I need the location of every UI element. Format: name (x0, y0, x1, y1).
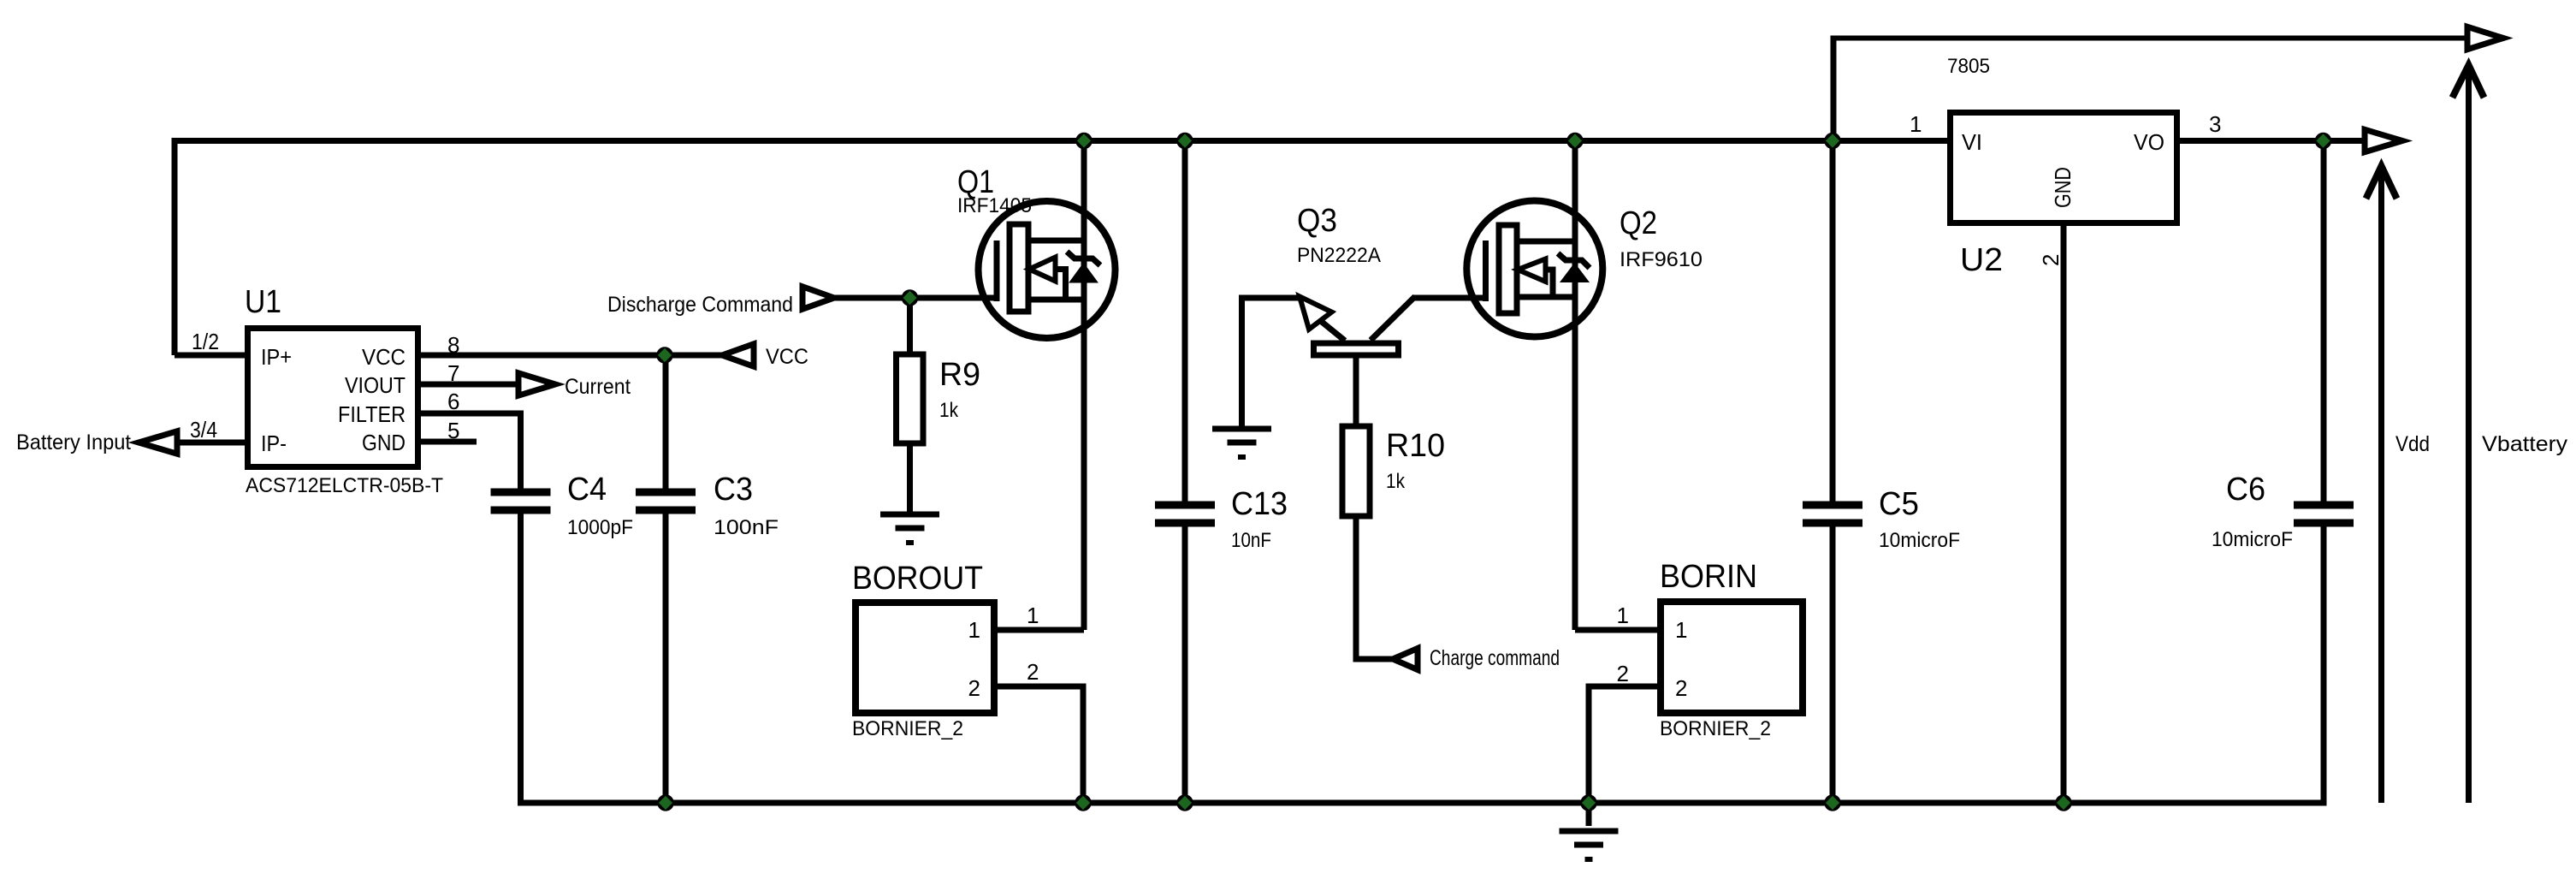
wire R9 top lead (907, 298, 913, 354)
pin label GND rotated (2050, 167, 2076, 208)
wire bottom ground bus (518, 800, 2327, 806)
label net Current (565, 375, 631, 399)
pin label VCC of U1 (362, 344, 406, 370)
svg-text:1000pF: 1000pF (567, 516, 633, 539)
label Q1 designator (957, 164, 994, 200)
pin label GND of U1 (362, 430, 406, 455)
svg-text:Vdd: Vdd (2395, 432, 2430, 456)
junction VCC node (656, 347, 673, 364)
pin label IP- (261, 431, 287, 456)
svg-text:1: 1 (1617, 603, 1629, 628)
label BORIN designator (1660, 559, 1757, 595)
svg-text:PN2222A: PN2222A (1297, 244, 1381, 267)
svg-text:IP+: IP+ (261, 344, 292, 370)
value 100nF (714, 516, 779, 539)
pin number 3 of U2 (2209, 111, 2221, 137)
wire GND pin 5 stub (418, 439, 477, 445)
svg-text:10microF: 10microF (1879, 529, 1960, 552)
resistor R9 (897, 354, 924, 443)
node Battery Input arrow (139, 431, 177, 454)
node Discharge Command arrow (802, 287, 834, 309)
svg-text:100nF: 100nF (714, 516, 779, 539)
svg-text:VI: VI (1962, 129, 1982, 155)
wire BORIN pin 2 to ground bus (1589, 686, 1657, 803)
wire C6 top lead (2321, 141, 2327, 506)
wire C3 top from VCC node (663, 355, 669, 492)
svg-text:U1: U1 (245, 284, 281, 320)
ground below Q3 emitter (1212, 429, 1271, 457)
label U1 designator (245, 284, 281, 320)
svg-text:C6: C6 (2226, 472, 2265, 508)
svg-text:Charge command: Charge command (1430, 646, 1560, 670)
junction Q1 top bus (1075, 133, 1093, 150)
svg-text:BOROUT: BOROUT (852, 561, 983, 597)
value 1000pF (567, 516, 633, 539)
wire VO output (2177, 138, 2365, 144)
regulator U2 7805 box (1951, 113, 2177, 223)
svg-text:3: 3 (2209, 111, 2221, 137)
wire Q3 base lead (1353, 355, 1359, 426)
pin label IP+ (261, 344, 292, 370)
pin number 3/4 (190, 417, 217, 442)
label net VCC (766, 345, 808, 369)
pin number 2 outside BORIN (1617, 661, 1629, 686)
svg-text:1: 1 (1910, 111, 1922, 137)
transistor Q3 BJT symbol (1300, 296, 1415, 355)
value IRF1405 (957, 194, 1032, 217)
svg-text:BORIN: BORIN (1660, 559, 1757, 595)
wire FILTER pin 6 to C4 (418, 413, 521, 489)
transistor Q1 MOSFET symbol (979, 201, 1116, 338)
pin number 7 (447, 360, 459, 386)
pin number 2 of U2 (2038, 254, 2064, 266)
svg-text:R9: R9 (939, 357, 980, 393)
pin label VI (1962, 129, 1982, 155)
svg-text:BORNIER_2: BORNIER_2 (852, 717, 963, 740)
svg-text:VO: VO (2134, 129, 2164, 155)
wire U1 IP+ pin lead (175, 353, 247, 359)
wire Q1 drain-source vertical (1081, 138, 1087, 630)
svg-text:BORNIER_2: BORNIER_2 (1660, 717, 1771, 740)
svg-text:1: 1 (1675, 617, 1687, 643)
wire BOROUT pin 2 to ground bus (998, 686, 1083, 803)
svg-text:10microF: 10microF (2212, 528, 2293, 551)
wire main top bus (172, 138, 1948, 144)
svg-text:IP-: IP- (261, 431, 287, 456)
svg-text:C5: C5 (1879, 486, 1919, 522)
label R10 designator (1386, 428, 1445, 464)
wire Q3 collector to Q2 gate (1413, 295, 1486, 301)
svg-text:2: 2 (1617, 661, 1629, 686)
wire BORIN pin 1 (1575, 627, 1657, 633)
label net Vdd (2395, 432, 2430, 456)
node VCC arrow (722, 344, 754, 366)
value 7805 (1947, 55, 1990, 78)
wire discharge command to Q1 gate (834, 295, 997, 301)
junction BORIN pin2 ground bus (1580, 794, 1597, 811)
svg-text:ACS712ELCTR-05B-T: ACS712ELCTR-05B-T (246, 474, 443, 497)
wire VIOUT pin 7 (418, 382, 518, 388)
node Vdd arrow (2366, 166, 2397, 803)
value 10microF of C6 (2212, 528, 2293, 551)
label net Battery Input (16, 431, 131, 454)
svg-text:2: 2 (1675, 675, 1687, 701)
capacitor C3 (636, 492, 696, 510)
junction Q2 top bus (1566, 133, 1584, 150)
pin number 1 outside BORIN (1617, 603, 1629, 628)
value 10nF (1231, 529, 1271, 552)
pin number 1 inside BORIN (1675, 617, 1687, 643)
wire C5 top lead (1830, 138, 1836, 505)
svg-text:7805: 7805 (1947, 55, 1990, 78)
svg-text:3/4: 3/4 (190, 417, 217, 442)
svg-text:IRF9610: IRF9610 (1620, 248, 1703, 271)
junction VO C6 node (2315, 133, 2332, 150)
connector BOROUT box (856, 603, 994, 713)
junction C3 ground bus (657, 794, 674, 811)
svg-text:IRF1405: IRF1405 (957, 194, 1032, 217)
value 10microF of C5 (1879, 529, 1960, 552)
pin number 2 inside BORIN (1675, 675, 1687, 701)
capacitor C13 (1155, 505, 1215, 523)
capacitor C6 (2294, 505, 2354, 523)
svg-text:Q3: Q3 (1297, 203, 1337, 239)
label C3 designator (714, 472, 753, 508)
svg-text:10nF: 10nF (1231, 529, 1271, 552)
svg-text:Vbattery: Vbattery (2482, 432, 2568, 456)
ground at bottom center (1560, 831, 1619, 859)
pin number 8 (447, 332, 459, 358)
wire C6 bottom lead (2321, 523, 2327, 803)
wire C3 bottom (663, 510, 669, 803)
label C4 designator (567, 472, 607, 508)
connector BORIN box (1661, 602, 1803, 713)
wire VCC stub to arrow (665, 353, 722, 359)
capacitor C4 (491, 492, 551, 510)
label R9 designator (939, 357, 980, 393)
junction C13 ground bus (1176, 794, 1193, 811)
wire ground stub below bus (1586, 803, 1592, 826)
ground below R9 (880, 514, 939, 543)
pin label VIOUT (345, 372, 406, 398)
capacitor C5 (1803, 505, 1862, 523)
wire C5 bottom lead (1830, 523, 1836, 803)
junction C13 top bus (1176, 133, 1193, 150)
svg-text:Discharge Command: Discharge Command (607, 293, 793, 317)
pin number 1 of U2 (1910, 111, 1922, 137)
wire C13 top lead (1182, 138, 1188, 505)
svg-text:GND: GND (362, 430, 406, 455)
value BORNIER_2 of BORIN (1660, 717, 1771, 740)
resistor R10 (1342, 426, 1370, 516)
svg-text:C3: C3 (714, 472, 753, 508)
value 1k of R9 (939, 399, 959, 422)
wire U2 GND lead (2061, 226, 2067, 803)
svg-text:C4: C4 (567, 472, 607, 508)
pin number 2 inside BOROUT (968, 675, 980, 701)
label U2 designator (1960, 242, 2003, 278)
wire C13 bottom lead (1182, 523, 1188, 803)
svg-text:Battery Input: Battery Input (16, 431, 131, 454)
label Q2 designator (1620, 205, 1657, 241)
pin number 5 (447, 418, 459, 443)
label C6 designator (2226, 472, 2265, 508)
label Q3 designator (1297, 203, 1337, 239)
value PN2222A (1297, 244, 1381, 267)
label C5 designator (1879, 486, 1919, 522)
junction C5 top bus (1824, 133, 1841, 150)
wire R9 bottom lead (907, 443, 913, 514)
transistor Q2 MOSFET symbol (1466, 201, 1602, 337)
value BORNIER_2 of BOROUT (852, 717, 963, 740)
label C13 designator (1231, 486, 1288, 522)
svg-text:Q2: Q2 (1620, 205, 1657, 241)
label net Discharge Command (607, 293, 793, 317)
svg-text:2: 2 (1027, 659, 1039, 685)
wire top output bus (Vbattery rail) (1831, 36, 2467, 41)
svg-text:VCC: VCC (362, 344, 406, 370)
pin label VO (2134, 129, 2164, 155)
svg-text:1: 1 (968, 617, 980, 643)
svg-text:VIOUT: VIOUT (345, 372, 406, 398)
svg-text:GND: GND (2050, 167, 2076, 208)
wire Q3 emitter to ground (1242, 298, 1300, 428)
wire left bus vertical to U1 IP+ (172, 138, 178, 355)
junction BOROUT pin2 ground bus (1075, 794, 1092, 811)
svg-text:Current: Current (565, 375, 631, 399)
svg-text:2: 2 (968, 675, 980, 701)
svg-text:1k: 1k (939, 399, 959, 422)
svg-text:1: 1 (1027, 603, 1039, 628)
node VO output arrow (2365, 129, 2402, 151)
value IRF9610 (1620, 248, 1703, 271)
svg-text:FILTER: FILTER (338, 401, 406, 427)
svg-text:1/2: 1/2 (192, 329, 219, 354)
wire R10 bottom to charge arrow (1356, 516, 1393, 659)
node output arrow top right (2467, 27, 2503, 49)
svg-text:U2: U2 (1960, 242, 2003, 278)
node Current arrow (518, 373, 555, 395)
wire U1 IP- pin lead (175, 440, 247, 446)
wire Q2 source-drain vertical (1572, 138, 1578, 630)
wire BOROUT pin 1 (998, 627, 1084, 633)
label BOROUT designator (852, 561, 983, 597)
junction U2 GND ground bus (2055, 794, 2072, 811)
label net Charge command (1430, 646, 1560, 670)
node Vbattery arrow (2453, 65, 2484, 803)
svg-text:VCC: VCC (766, 345, 808, 369)
junction R9 top node (902, 289, 919, 306)
svg-text:R10: R10 (1386, 428, 1445, 464)
svg-text:1k: 1k (1386, 470, 1406, 493)
svg-text:2: 2 (2038, 254, 2064, 266)
value ACS712ELCTR-05B-T (246, 474, 443, 497)
IC U1 current sensor box (248, 329, 418, 467)
pin number 1 inside BOROUT (968, 617, 980, 643)
wire VCC pin 8 (418, 353, 665, 359)
pin number 6 (447, 389, 459, 414)
junction C5 ground bus (1824, 794, 1841, 811)
svg-text:C13: C13 (1231, 486, 1288, 522)
label net Vbattery (2482, 432, 2568, 456)
wire segment vertical 7805 input riser (1831, 36, 1837, 139)
value 1k of R10 (1386, 470, 1406, 493)
pin number 1/2 (192, 329, 219, 354)
pin label FILTER (338, 401, 406, 427)
pin number 1 outside BOROUT (1027, 603, 1039, 628)
node Charge command arrow (1393, 649, 1418, 670)
wire C4 bottom to ground bus (521, 510, 524, 803)
pin number 2 outside BOROUT (1027, 659, 1039, 685)
